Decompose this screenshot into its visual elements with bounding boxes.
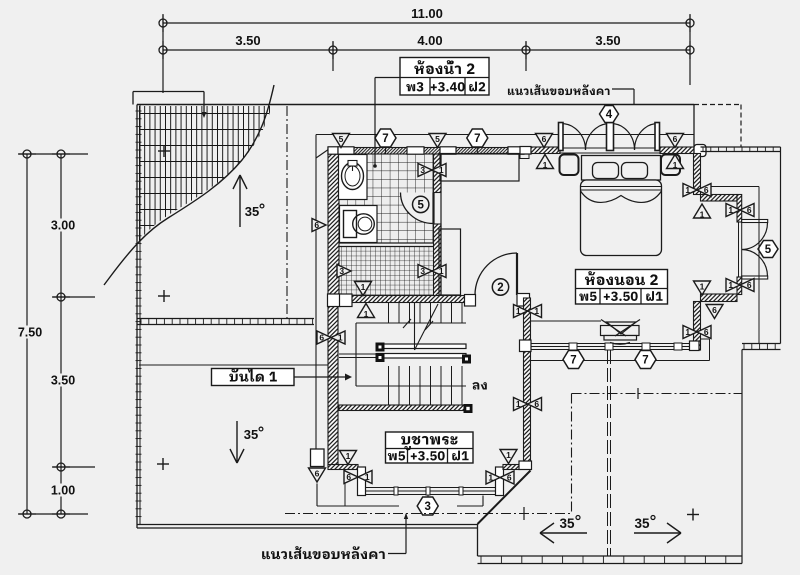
svg-text:1: 1 <box>488 473 493 483</box>
svg-text:6: 6 <box>319 333 324 343</box>
svg-text:1: 1 <box>534 306 539 316</box>
svg-text:1: 1 <box>728 205 733 215</box>
svg-text:35: 35 <box>245 204 259 219</box>
svg-text:6: 6 <box>314 220 319 230</box>
svg-text:1: 1 <box>516 399 521 409</box>
svg-text:1: 1 <box>338 333 343 343</box>
svg-text:11.00: 11.00 <box>411 6 443 21</box>
svg-text:4: 4 <box>606 109 613 121</box>
svg-text:35: 35 <box>244 427 258 442</box>
svg-text:1: 1 <box>346 451 351 461</box>
svg-text:3: 3 <box>339 266 344 276</box>
svg-text:5: 5 <box>435 134 440 144</box>
svg-text:1: 1 <box>506 450 511 460</box>
svg-text:1: 1 <box>673 160 678 170</box>
svg-text:6: 6 <box>507 473 512 483</box>
svg-text:6: 6 <box>542 134 547 144</box>
svg-text:1: 1 <box>728 280 733 290</box>
svg-text:1.00: 1.00 <box>51 484 75 498</box>
svg-text:3.50: 3.50 <box>51 374 75 388</box>
svg-text:3.50: 3.50 <box>235 33 260 48</box>
svg-text:1: 1 <box>700 209 705 219</box>
svg-text:3.50: 3.50 <box>595 33 620 48</box>
svg-text:6: 6 <box>534 399 539 409</box>
svg-text:7: 7 <box>642 355 648 367</box>
svg-text:3: 3 <box>420 165 425 175</box>
svg-text:6: 6 <box>673 134 678 144</box>
svg-text:5: 5 <box>417 200 424 212</box>
svg-text:3: 3 <box>420 266 425 276</box>
svg-text:7: 7 <box>382 133 388 145</box>
svg-text:6: 6 <box>346 472 351 482</box>
svg-text:7: 7 <box>570 355 576 367</box>
svg-text:1: 1 <box>361 282 366 292</box>
svg-text:5: 5 <box>765 244 772 256</box>
svg-text:7.50: 7.50 <box>18 326 42 340</box>
svg-text:7: 7 <box>474 133 480 145</box>
svg-text:5: 5 <box>339 134 344 144</box>
svg-text:1: 1 <box>365 472 370 482</box>
svg-text:1: 1 <box>685 327 690 337</box>
svg-text:6: 6 <box>747 205 752 215</box>
svg-text:1: 1 <box>543 160 548 170</box>
svg-text:35: 35 <box>559 516 575 531</box>
svg-text:1: 1 <box>685 185 690 195</box>
svg-text:6: 6 <box>315 469 320 479</box>
svg-text:1: 1 <box>700 282 705 292</box>
svg-text:6: 6 <box>712 305 717 315</box>
svg-text:1: 1 <box>516 306 521 316</box>
svg-text:1: 1 <box>439 165 444 175</box>
svg-text:6: 6 <box>704 327 709 337</box>
svg-text:35: 35 <box>634 516 650 531</box>
svg-text:1: 1 <box>439 266 444 276</box>
svg-text:4.00: 4.00 <box>417 33 442 48</box>
svg-text:6: 6 <box>704 185 709 195</box>
svg-text:3.00: 3.00 <box>51 219 75 233</box>
svg-text:3: 3 <box>424 501 430 513</box>
svg-text:2: 2 <box>497 282 503 294</box>
svg-text:6: 6 <box>747 280 752 290</box>
svg-text:1: 1 <box>364 309 369 319</box>
